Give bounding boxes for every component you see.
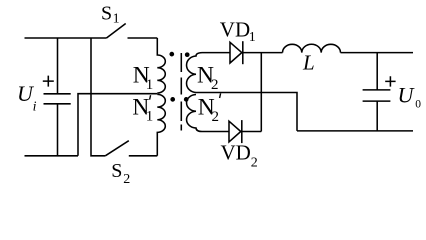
svg-text:S: S	[111, 160, 122, 182]
capacitor Co top lead	[376, 53, 378, 90]
svg-text:1: 1	[113, 12, 120, 27]
winding N1'	[157, 94, 165, 155]
capacitor Ci top lead	[57, 38, 59, 94]
wire S2 feed from top rail	[91, 38, 105, 156]
svg-text:1: 1	[146, 109, 154, 125]
label VD1	[220, 18, 256, 45]
polarity dot N2'	[184, 97, 189, 102]
wire bottom rail	[25, 155, 79, 157]
wire top rail left	[25, 37, 107, 39]
label N2	[197, 63, 219, 93]
svg-text:2: 2	[211, 77, 219, 93]
svg-text:VD: VD	[220, 18, 250, 42]
wire L to output	[341, 52, 414, 54]
prime of N1'	[150, 95, 151, 99]
plus sign input	[43, 76, 54, 87]
svg-text:2: 2	[251, 155, 258, 170]
label Uo	[398, 82, 422, 110]
transformer core	[180, 53, 182, 131]
polarity dot N1	[169, 52, 174, 57]
polarity dot N2	[185, 52, 190, 57]
label S2	[111, 160, 130, 187]
inductor L	[283, 44, 341, 52]
prime of N2'	[220, 93, 221, 98]
svg-text:1: 1	[249, 30, 256, 45]
switch S2 blade	[105, 141, 129, 156]
winding N2'	[187, 95, 202, 132]
label L	[302, 51, 315, 75]
svg-text:i: i	[33, 100, 37, 115]
winding N2	[187, 53, 202, 93]
svg-text:2: 2	[212, 109, 220, 125]
svg-text:U: U	[398, 82, 416, 107]
svg-text:L: L	[302, 51, 315, 75]
wire VD1 to L	[243, 52, 283, 54]
svg-text:0: 0	[415, 99, 421, 111]
diode VD1	[230, 42, 242, 63]
wire N2 to VD1	[202, 52, 230, 54]
wire N2' to VD2	[202, 131, 229, 133]
capacitor Ci plates	[44, 94, 71, 104]
label N1'	[132, 94, 153, 124]
label VD2	[221, 141, 258, 171]
wire N2 center tap to output return	[196, 93, 297, 131]
wire center-tap return	[78, 94, 157, 156]
label N2'	[198, 95, 219, 125]
polarity dot N1'	[170, 97, 175, 102]
svg-text:VD: VD	[221, 141, 251, 165]
svg-text:1: 1	[146, 77, 154, 93]
svg-text:S: S	[101, 3, 112, 25]
capacitor Ci bottom lead	[57, 104, 59, 156]
capacitor Co bottom lead	[376, 101, 378, 131]
svg-text:2: 2	[123, 172, 130, 187]
wire S2 to winding	[129, 155, 158, 157]
wire output bottom	[297, 130, 413, 132]
label N1	[133, 63, 154, 94]
wire VD2 output	[242, 131, 261, 133]
label Ui	[17, 81, 37, 115]
winding N1	[157, 38, 165, 93]
switch S1 blade	[107, 24, 126, 39]
wire diode junction vertical	[260, 53, 262, 132]
capacitor Co plates	[363, 90, 391, 101]
label S1	[101, 3, 120, 27]
wire top rail right of S1	[128, 37, 158, 39]
plus sign output	[385, 76, 395, 86]
diode VD2	[229, 121, 241, 142]
